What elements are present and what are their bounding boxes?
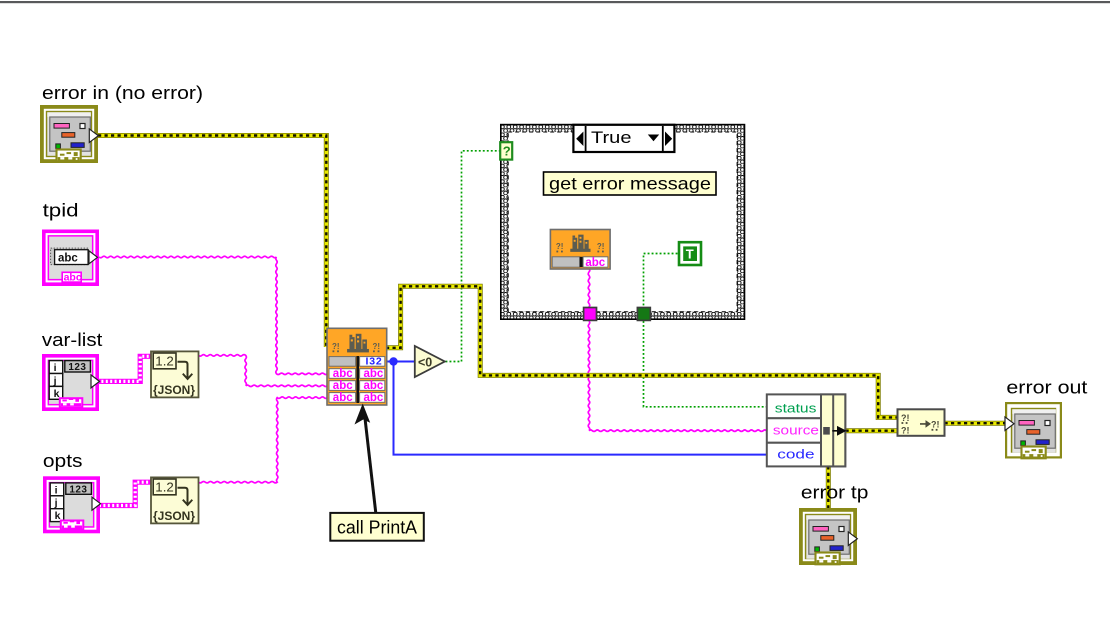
svg-text:abc: abc — [64, 272, 82, 284]
svg-text:1.2: 1.2 — [155, 355, 174, 369]
svg-text:abc: abc — [333, 392, 353, 404]
wire (error cluster) bundle out to merge — [846, 428, 898, 433]
sub-VI get error message (orange) — [550, 230, 610, 270]
wire (I32) I32 out to less-than-0 — [384, 361, 415, 363]
wire (string array) var-list to ToJSON1 — [97, 356, 152, 381]
svg-text:abc: abc — [364, 392, 384, 404]
case selector terminal "?" — [500, 142, 512, 159]
wire (error cluster) error in to call PrintA — [98, 136, 326, 348]
wire (error cluster) call PrintA error out to merge — [386, 286, 898, 417]
conversion node ToJSON1 (1.2 to JSON) — [151, 351, 199, 397]
svg-text:error tp: error tp — [801, 482, 869, 503]
svg-text:abc: abc — [585, 257, 605, 269]
merge errors node — [898, 409, 945, 436]
svg-text:?!: ?! — [901, 425, 910, 435]
wire (string) ToJSON2 to call PrintA s3 — [199, 397, 328, 483]
wire (string array) opts to ToJSON2 — [99, 482, 152, 505]
svg-text:j: j — [53, 375, 57, 387]
svg-text:?!: ?! — [597, 242, 605, 251]
svg-text:?!: ?! — [931, 420, 940, 430]
svg-text:get error message: get error message — [549, 174, 711, 194]
svg-text:abc: abc — [333, 380, 353, 392]
svg-text:call PrintA: call PrintA — [337, 518, 417, 538]
case tunnel (string, magenta) — [584, 308, 597, 321]
svg-text:source: source — [773, 424, 819, 438]
svg-text:T: T — [686, 247, 694, 262]
conversion node ToJSON2 (1.2 to JSON) — [151, 477, 199, 523]
annotation label "call PrintA" with arrow — [330, 404, 424, 541]
svg-text:error in (no error): error in (no error) — [42, 82, 203, 103]
svg-text:<0: <0 — [418, 356, 432, 370]
svg-text:?: ? — [503, 144, 511, 159]
wire (I32) I32 branch to bundle code — [394, 362, 767, 455]
svg-text:j: j — [54, 497, 58, 509]
svg-text:var-list: var-list — [42, 329, 102, 350]
svg-text:?!: ?! — [556, 242, 564, 251]
case selector label "True" — [573, 125, 674, 152]
top window divider line — [0, 1, 1110, 3]
svg-text:tpid: tpid — [43, 200, 79, 221]
node call PrintA (call library function) — [327, 328, 387, 405]
svg-text:?!: ?! — [373, 342, 381, 351]
svg-text:code: code — [777, 448, 814, 462]
svg-text:123: 123 — [69, 484, 87, 495]
wire (boolean) True constant to tunnel — [644, 254, 678, 311]
wire (string) tunnel to bundle source — [588, 321, 766, 431]
control terminal "tpid" (string) — [42, 230, 99, 287]
svg-text:opts: opts — [43, 450, 83, 471]
bundle by name node (status / source / code) — [767, 394, 846, 466]
wire (string) ToJSON1 to call PrintA s2 — [199, 355, 328, 387]
svg-text:abc: abc — [333, 368, 353, 380]
svg-text:i: i — [55, 484, 58, 496]
svg-text:error out: error out — [1006, 377, 1087, 398]
wire (error cluster) error tp to bundle input — [826, 466, 831, 509]
svg-text:I32: I32 — [366, 355, 383, 367]
case tunnel (boolean, green) — [637, 308, 650, 321]
control terminal "error in (no error)" — [40, 105, 98, 163]
svg-text:{JSON}: {JSON} — [153, 385, 196, 397]
wire (string) get error message abc to tunnel — [588, 269, 590, 311]
svg-text:k: k — [55, 510, 61, 522]
svg-text:k: k — [54, 388, 60, 400]
svg-text:True: True — [591, 129, 632, 147]
svg-text:1.2: 1.2 — [155, 481, 174, 495]
svg-text:abc: abc — [58, 252, 78, 264]
svg-text:status: status — [775, 402, 817, 416]
svg-text:?!: ?! — [332, 342, 340, 351]
wire (string) tpid to call PrintA s1 — [99, 256, 328, 374]
svg-text:i: i — [54, 362, 57, 374]
svg-text:123: 123 — [68, 362, 86, 373]
comparator node "&lt;0" — [415, 346, 445, 377]
svg-text:?!: ?! — [901, 413, 910, 423]
wire (error cluster) merge to error out — [945, 421, 1005, 426]
free label "get error message" — [544, 172, 717, 195]
svg-text:abc: abc — [364, 380, 384, 392]
control terminal "error tp" — [799, 508, 857, 565]
wire junction (I32) — [389, 357, 397, 365]
wire (boolean) tunnel to bundle status — [644, 321, 767, 407]
boolean constant True "T" — [679, 242, 701, 265]
case structure border (True case) — [501, 125, 745, 320]
svg-text:{JSON}: {JSON} — [153, 511, 196, 523]
svg-text:abc: abc — [364, 368, 384, 380]
wire (boolean) less-than-0 to case selector — [446, 151, 500, 362]
control terminal var-list (array) — [42, 354, 100, 411]
control terminal opts (array) — [43, 476, 101, 533]
indicator terminal "error out" — [1005, 402, 1062, 459]
